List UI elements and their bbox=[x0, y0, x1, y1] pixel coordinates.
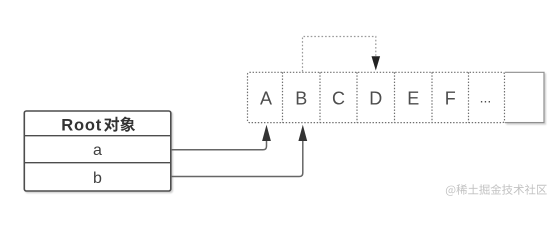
cell divider F|dots bbox=[468, 72, 470, 122]
dotted pointer wire from B top to D top bbox=[303, 37, 376, 72]
svg-text:D: D bbox=[369, 88, 382, 108]
solid empty end cell bbox=[505, 72, 544, 122]
header glyph 对 bbox=[104, 117, 119, 132]
watermark glyph 区 bbox=[537, 185, 547, 195]
svg-text:Root: Root bbox=[61, 116, 102, 134]
cell divider B|C bbox=[319, 72, 321, 122]
svg-text:F: F bbox=[445, 88, 456, 108]
watermark glyph 社 bbox=[525, 184, 536, 195]
cell divider C|D bbox=[356, 72, 358, 122]
dotted array outline (cells A..dots) bbox=[248, 72, 505, 122]
watermark glyph 土 bbox=[468, 184, 478, 194]
arrowhead into cell D bbox=[372, 56, 381, 70]
cell divider E|F bbox=[431, 72, 433, 122]
svg-text:E: E bbox=[407, 88, 419, 108]
wire from row b to cell B bbox=[171, 141, 303, 177]
arrowhead into cell A bbox=[262, 125, 271, 141]
svg-text:a: a bbox=[93, 142, 102, 159]
svg-text:B: B bbox=[295, 88, 307, 108]
watermark glyph 技 bbox=[502, 184, 513, 195]
svg-text:...: ... bbox=[480, 90, 492, 106]
svg-text:b: b bbox=[93, 170, 102, 187]
svg-text:C: C bbox=[332, 88, 345, 108]
watermark glyph 稀 bbox=[456, 184, 467, 195]
watermark glyph 术 bbox=[514, 184, 525, 195]
cell divider D|E bbox=[394, 72, 396, 122]
watermark glyph 掘 bbox=[479, 184, 489, 195]
Root object table bbox=[24, 111, 171, 191]
header glyph 象 bbox=[120, 117, 135, 132]
watermark glyph @ bbox=[446, 186, 456, 196]
arrowhead into cell B bbox=[298, 125, 307, 141]
watermark glyph 金 bbox=[491, 184, 502, 194]
svg-text:A: A bbox=[260, 88, 272, 108]
wire from row a to cell A bbox=[171, 141, 267, 150]
cell divider A|B bbox=[282, 72, 284, 122]
